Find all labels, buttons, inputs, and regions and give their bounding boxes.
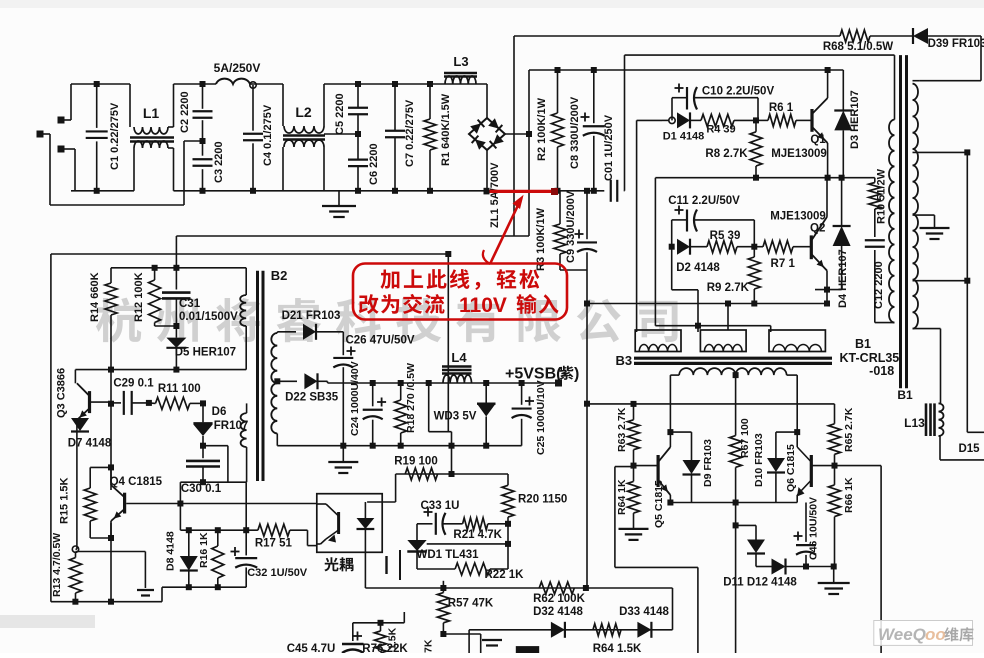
svg-text:Q4 C1815: Q4 C1815 (110, 476, 163, 488)
svg-text:R3 100K/1W: R3 100K/1W (535, 207, 547, 271)
svg-text:WD1 TL431: WD1 TL431 (417, 549, 480, 561)
svg-text:C4 0.1/275V: C4 0.1/275V (262, 104, 274, 166)
svg-text:L2: L2 (295, 104, 312, 120)
svg-text:R11 100: R11 100 (158, 383, 201, 395)
svg-text:B3: B3 (615, 353, 632, 368)
svg-text:C12 2200: C12 2200 (873, 261, 885, 309)
svg-text:C25 1000U/10V: C25 1000U/10V (535, 380, 547, 455)
svg-text:R64 1K: R64 1K (616, 479, 628, 515)
svg-text:D22 SB35: D22 SB35 (285, 392, 339, 404)
svg-text:D1 4148: D1 4148 (663, 131, 705, 143)
svg-text:D33 4148: D33 4148 (619, 606, 669, 618)
svg-text:MJE13009: MJE13009 (770, 211, 826, 223)
svg-text:R2 100K/1W: R2 100K/1W (536, 97, 548, 161)
svg-text:D7 4148: D7 4148 (68, 438, 112, 450)
svg-text:D39 FR103: D39 FR103 (928, 38, 984, 50)
svg-text:R22 1K: R22 1K (485, 569, 525, 581)
svg-text:R76 22K: R76 22K (362, 643, 408, 653)
svg-text:C32 1U/50V: C32 1U/50V (247, 567, 308, 579)
svg-text:-018: -018 (869, 364, 894, 378)
svg-text:R7 1: R7 1 (771, 258, 796, 270)
svg-text:Q6 C1815: Q6 C1815 (785, 444, 797, 492)
svg-text:R68 5.1/0.5W: R68 5.1/0.5W (823, 41, 893, 53)
svg-text:Q3 C3866: Q3 C3866 (56, 368, 68, 418)
svg-text:C8 330U/200V: C8 330U/200V (569, 96, 581, 169)
svg-text:R67 100: R67 100 (739, 418, 751, 458)
svg-text:R19 100: R19 100 (394, 456, 437, 468)
svg-text:D11 D12 4148: D11 D12 4148 (723, 577, 797, 589)
svg-text:D9 FR103: D9 FR103 (702, 439, 714, 487)
svg-text:D32 4148: D32 4148 (533, 606, 583, 618)
svg-text:C29 0.1: C29 0.1 (113, 378, 154, 390)
svg-text:D10 FR103: D10 FR103 (753, 433, 765, 487)
svg-text:Q5 C1815: Q5 C1815 (653, 480, 665, 528)
svg-text:C9 330U/200V: C9 330U/200V (565, 190, 577, 263)
svg-text:ZL1 5A/700V: ZL1 5A/700V (489, 162, 501, 228)
svg-text:B2: B2 (271, 268, 288, 283)
svg-text:C2 2200: C2 2200 (179, 91, 191, 133)
svg-text:D21 FR103: D21 FR103 (282, 310, 341, 322)
svg-text:C45 4.7U: C45 4.7U (287, 643, 336, 653)
svg-text:R18 270 /0.5W: R18 270 /0.5W (405, 363, 417, 433)
svg-text:R9 2.7K: R9 2.7K (707, 282, 750, 294)
svg-text:D5 HER107: D5 HER107 (175, 347, 236, 359)
svg-text:5A/250V: 5A/250V (214, 61, 261, 75)
svg-text:R62 100K: R62 100K (533, 593, 585, 605)
svg-text:R20 1150: R20 1150 (518, 494, 567, 506)
svg-text:oo: oo (925, 625, 946, 644)
svg-text:D6: D6 (212, 406, 227, 418)
svg-text:R15 1.5K: R15 1.5K (59, 477, 71, 524)
svg-text:R17 51: R17 51 (255, 538, 293, 550)
svg-text:110V: 110V (459, 294, 507, 317)
svg-text:R4 39: R4 39 (706, 124, 735, 136)
svg-text:C30 0.1: C30 0.1 (181, 483, 222, 495)
svg-text:C11 2.2U/50V: C11 2.2U/50V (668, 195, 740, 207)
svg-text:R57 47K: R57 47K (448, 598, 494, 610)
svg-text:0.01/1500V: 0.01/1500V (179, 311, 238, 323)
svg-text:C46 10U/50V: C46 10U/50V (808, 497, 820, 560)
svg-text:R63 2.7K: R63 2.7K (616, 407, 628, 452)
svg-text:R13 4.7/0.5W: R13 4.7/0.5W (51, 533, 63, 597)
svg-text:R6 1: R6 1 (769, 102, 794, 114)
svg-text:C01 1U/250V: C01 1U/250V (603, 114, 615, 181)
svg-text:R21 4.7K: R21 4.7K (453, 529, 502, 541)
svg-text:R65 2.7K: R65 2.7K (843, 407, 855, 452)
svg-text:D4 HER107: D4 HER107 (837, 249, 849, 308)
svg-text:R1 640K/1.5W: R1 640K/1.5W (440, 93, 452, 166)
svg-text:L4: L4 (451, 350, 467, 365)
svg-text:L13: L13 (904, 416, 925, 430)
svg-text:B1: B1 (855, 337, 871, 351)
svg-text:C31: C31 (179, 298, 201, 310)
svg-text:D15: D15 (958, 443, 980, 455)
svg-text:R14 660K: R14 660K (89, 272, 101, 322)
svg-text:C26 47U/50V: C26 47U/50V (345, 335, 414, 347)
svg-text:L1: L1 (143, 105, 160, 121)
svg-text:): ) (574, 366, 579, 383)
svg-text:R16 1K: R16 1K (198, 532, 210, 568)
svg-text:C3 2200: C3 2200 (213, 141, 225, 183)
svg-text:C1 0.22/275V: C1 0.22/275V (109, 102, 121, 170)
svg-text:R10 51/2W: R10 51/2W (876, 168, 888, 224)
svg-text:Q1: Q1 (810, 134, 826, 146)
svg-text:D2 4148: D2 4148 (676, 262, 720, 274)
svg-text:C6 2200: C6 2200 (368, 143, 380, 185)
svg-text:D3 HER107: D3 HER107 (849, 90, 861, 149)
svg-text:C7 0.22/275V: C7 0.22/275V (404, 99, 416, 167)
svg-text:C33 1U: C33 1U (421, 500, 460, 512)
svg-text:L3: L3 (453, 54, 468, 69)
svg-text:MJE13009: MJE13009 (771, 148, 827, 160)
svg-text:7K: 7K (423, 639, 435, 653)
svg-text:WeeQ: WeeQ (878, 625, 926, 644)
svg-text:KT-CRL35: KT-CRL35 (840, 351, 900, 365)
svg-text:B1: B1 (897, 388, 913, 402)
svg-text:R66 1K: R66 1K (843, 477, 855, 513)
svg-text:WD3 5V: WD3 5V (434, 411, 477, 423)
svg-text:Q2: Q2 (810, 223, 825, 235)
svg-text:C5 2200: C5 2200 (334, 93, 346, 135)
svg-text:C24 1000U/40V: C24 1000U/40V (349, 361, 361, 436)
svg-text:+5VSB(: +5VSB( (505, 366, 562, 383)
svg-text:R8 2.7K: R8 2.7K (705, 148, 748, 160)
svg-text:D8 4148: D8 4148 (165, 531, 177, 571)
svg-text:R12 100K: R12 100K (133, 272, 145, 322)
svg-text:R5 39: R5 39 (710, 230, 741, 242)
svg-text:FR107: FR107 (214, 420, 249, 432)
svg-text:C10 2.2U/50V: C10 2.2U/50V (702, 86, 775, 98)
svg-text:R64 1.5K: R64 1.5K (593, 643, 642, 653)
